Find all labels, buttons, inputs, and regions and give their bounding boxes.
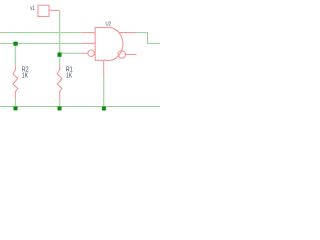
svg-text:1K: 1K	[22, 73, 29, 80]
junction rail/R1	[58, 106, 62, 110]
wire R1 top lead	[59, 55, 61, 66]
junction rail/U2	[102, 107, 106, 111]
U2 input bubble	[88, 50, 94, 56]
pin V1	[49, 9, 60, 11]
pin U2 inverted output	[126, 54, 137, 56]
wire R1 bottom lead	[59, 99, 61, 107]
U2 inverted output bubble	[118, 51, 126, 59]
wire R2 top lead	[14, 43, 16, 65]
wire output	[136, 33, 160, 44]
wire R2 bottom lead	[14, 99, 16, 107]
wire net B horizontal	[0, 42, 82, 44]
pin U2 input B	[82, 42, 96, 44]
wire v1 vertical	[59, 10, 61, 54]
logic gate U2 body	[95, 28, 123, 61]
pin U2 input A	[82, 32, 96, 34]
svg-text:1K: 1K	[66, 73, 73, 80]
junction rail/R2	[14, 106, 18, 110]
svg-text:U2: U2	[106, 21, 112, 27]
wire net A horizontal	[0, 32, 82, 34]
svg-text:v1: v1	[30, 5, 35, 12]
pin U2 output Y	[119, 32, 136, 34]
junction node C/R1/v1	[58, 53, 62, 57]
resistor R1	[57, 66, 62, 99]
pin U2 input C	[82, 52, 88, 54]
wire net C horizontal	[60, 52, 82, 54]
resistor R2	[13, 66, 18, 99]
voltage source V1 body	[38, 5, 49, 16]
wire ground rail	[0, 106, 160, 108]
pin U2 bottom	[103, 60, 105, 76]
junction node B/R2	[13, 42, 17, 46]
wire gate bottom pin to rail	[103, 76, 105, 107]
